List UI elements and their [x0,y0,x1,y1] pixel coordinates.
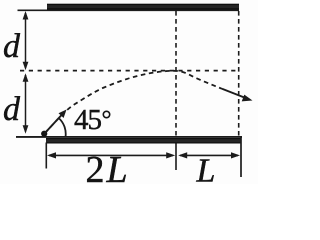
charge particle dot [41,131,47,137]
initial velocity arrow v0 at 45 deg [45,110,67,134]
svg-text:d: d [3,28,21,65]
svg-text:L: L [196,153,216,185]
angle arc [59,118,66,136]
svg-text:d: d [3,91,21,128]
vertical dashed line at plate end [238,11,240,136]
bottom boundary line [16,136,242,138]
top plate P1 [47,4,239,10]
dimension tick middle [175,144,177,171]
trajectory dashed parabola [45,71,223,134]
dimension arrow d lower [23,73,29,134]
mid horizontal dashed line [20,70,236,72]
dimension tick right [240,137,242,177]
svg-text:45: 45 [74,104,102,136]
vertical dashed line at 2L [175,11,177,136]
dimension tick left [45,143,47,169]
svg-text:2L: 2L [86,149,128,184]
dimension arrow L [178,152,240,158]
bottom plate P2 [46,138,242,144]
trajectory exit arrow [222,89,253,102]
dimension arrow 2L [47,152,175,158]
dimension arrow d upper [23,11,29,70]
top boundary line [18,9,240,11]
